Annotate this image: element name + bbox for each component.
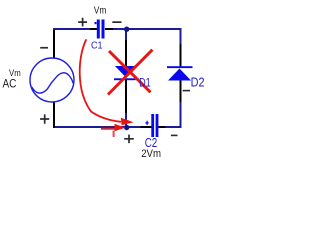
svg-text:Vm: Vm — [94, 4, 107, 16]
wire top-left vertical (source top to corner) — [53, 28, 55, 58]
wire C1 right pin — [105, 28, 113, 30]
red current arc arrowhead — [121, 118, 134, 126]
diode D2 cathode bar — [167, 66, 193, 68]
red X over D1 stroke 2 — [108, 50, 152, 95]
plus sign below source — [40, 114, 49, 123]
ac source V1 circle — [30, 58, 74, 102]
ac source sine wave — [32, 73, 74, 93]
node junction top (C1/D1) — [124, 27, 129, 32]
wire C1 left pin — [90, 28, 97, 30]
plus sign below bottom node — [124, 135, 134, 144]
svg-text:D1: D1 — [139, 75, 151, 89]
wire bottom left segment — [53, 126, 127, 128]
capacitor C1 left plate — [97, 20, 100, 39]
wire right vertical upper blue — [180, 28, 182, 44]
svg-text:D2: D2 — [191, 76, 205, 90]
red straight current arrow shaft — [101, 126, 116, 128]
minus sign above source — [40, 47, 48, 49]
capacitor C2 right plate — [156, 114, 159, 137]
diode D1 cathode bar — [114, 78, 136, 80]
red straight current arrowhead — [115, 124, 126, 132]
diode D1 triangle — [115, 66, 136, 77]
svg-text:C1: C1 — [91, 40, 103, 52]
wire C2 left pin black — [141, 126, 152, 128]
wire source bottom vertical — [53, 102, 55, 128]
capacitor C1 right plate — [102, 20, 105, 39]
wire D1 branch lower black — [125, 80, 127, 113]
red straight arrow bright lower edge — [101, 128, 116, 130]
capacitor C2 polarity tiny plus — [145, 121, 148, 125]
red current arc arrow — [80, 39, 121, 122]
wire C2 right pin black — [158, 126, 165, 128]
wire D1 branch upper — [125, 29, 127, 40]
node junction bottom (C2/D1) — [124, 125, 129, 130]
capacitor C2 left plate — [151, 114, 154, 137]
wire top horizontal left segment — [53, 28, 90, 30]
red label i — [113, 131, 115, 137]
minus sign right of C2 — [171, 135, 178, 137]
plus sign left of C1 — [78, 18, 87, 27]
wire D1 branch lower blue — [125, 113, 127, 127]
wire top horizontal right segment — [113, 28, 181, 30]
wire D2 anode down black — [180, 80, 182, 102]
red X over D1 stroke 1 — [109, 51, 151, 92]
minus sign near D2 anode — [183, 90, 190, 92]
wire right vertical lower blue — [180, 102, 182, 128]
diode D2 triangle — [168, 69, 191, 81]
capacitor C1 polarity tiny plus — [95, 22, 97, 24]
wire C2 left to node — [127, 126, 141, 128]
wire D1 top pin black — [125, 40, 127, 66]
wire right vertical to D2 cathode — [180, 44, 182, 67]
svg-text:AC: AC — [3, 77, 17, 91]
minus sign right of C1 — [112, 21, 121, 23]
wire bottom right segment — [166, 126, 182, 128]
svg-text:2Vm: 2Vm — [141, 148, 161, 160]
